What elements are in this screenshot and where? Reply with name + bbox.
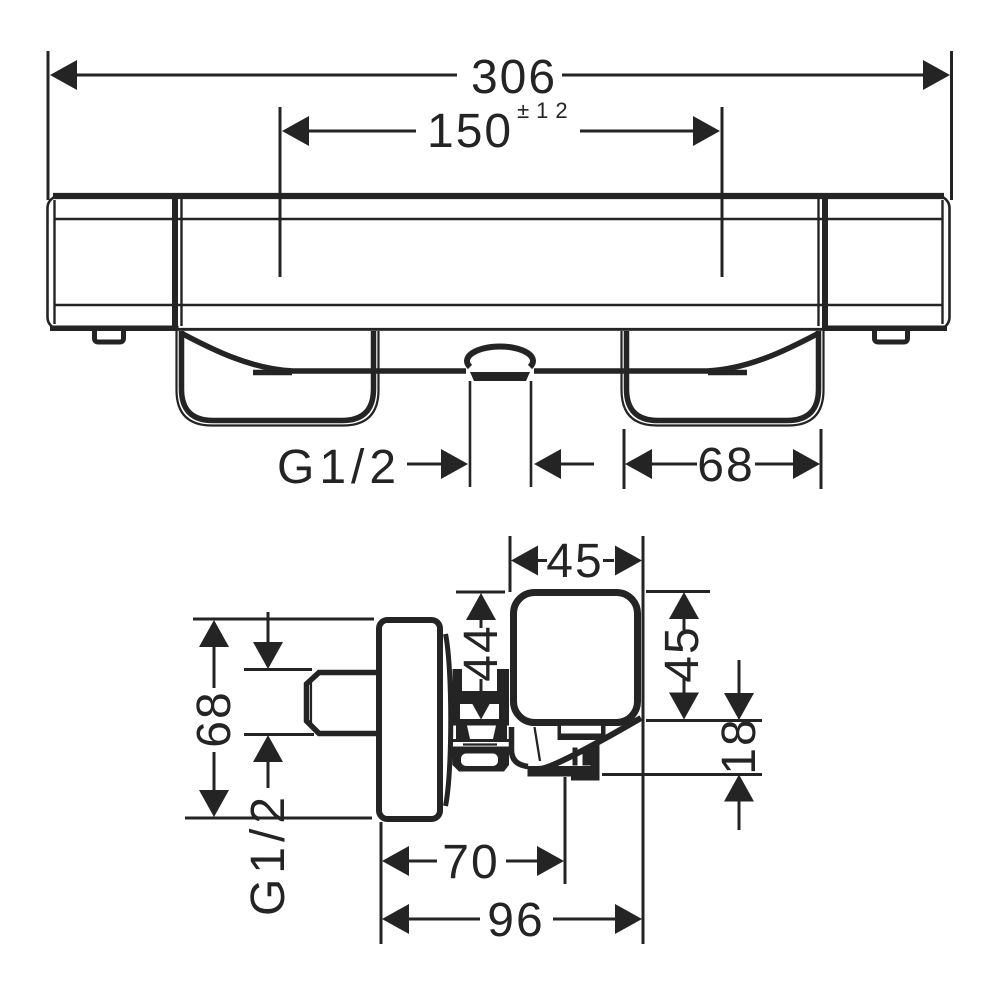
- dimension 68 left line: [213, 647, 216, 791]
- svg-text:G1/2: G1/2: [242, 792, 295, 916]
- dimension 44 arrow down: [466, 693, 496, 720]
- dimension 44 slot walls: [453, 704, 510, 721]
- left escutcheon outer contour thin: [177, 331, 379, 426]
- dimension G1/2 left arrow down: [253, 642, 283, 669]
- dimension 45 top extension line left: [509, 536, 512, 592]
- dimension 150 arrow right: [693, 116, 720, 146]
- svg-text:18: 18: [713, 717, 766, 774]
- dimension 150 extension line right: [721, 107, 724, 277]
- mixer bar outline: [48, 196, 950, 329]
- dimension 68 line: [651, 463, 795, 466]
- handle lever bottom band step: [571, 776, 598, 781]
- handle lever bottom band: [528, 766, 599, 777]
- right mounting clip: [875, 331, 908, 343]
- dimension 68 left arrow up: [199, 620, 229, 647]
- right end cap joint thick: [822, 196, 828, 330]
- dimension 68 extension line right: [820, 429, 823, 489]
- union nut thin line: [463, 743, 497, 745]
- handle lever curve: [539, 718, 641, 769]
- dimension 45 right extension bottom: [646, 719, 762, 722]
- dimension 306 extension line right: [950, 51, 953, 200]
- dimension 45 right extension top: [646, 590, 710, 593]
- escutcheon side view front bulge: [446, 634, 451, 806]
- wall knob G1/2: [307, 673, 377, 734]
- dimension 18 arrow up: [724, 775, 754, 802]
- dimension 150 arrow left: [282, 116, 309, 146]
- right escutcheon: [627, 331, 819, 421]
- dimension 45 top / 96 shared extension line right: [642, 536, 645, 944]
- dimension 150 extension line left: [279, 107, 282, 277]
- dimension 150 line: [308, 130, 694, 133]
- union nut lower band 2: [453, 747, 510, 752]
- left end cap joint thin: [180, 199, 182, 326]
- escutcheon side view body: [379, 620, 440, 819]
- dimension G1/2 extension top: [244, 668, 312, 671]
- dimension 44 extension bottom: [460, 719, 500, 722]
- bottom face curve right overlap bump: [708, 370, 747, 376]
- dimension 306 arrow right: [923, 60, 950, 90]
- dimension 306 line: [76, 74, 924, 77]
- G1/2 arrow line: [407, 463, 444, 466]
- outlet pipe left line: [469, 381, 472, 487]
- dimension 68 arrow right: [793, 449, 820, 479]
- svg-text:68: 68: [697, 439, 754, 492]
- dimension 18 shaft bottom: [738, 800, 741, 830]
- handle lever left wall: [512, 727, 529, 767]
- dimension 70/96 extension line left: [380, 822, 383, 944]
- handle lever right bar: [591, 743, 600, 781]
- dimension 45 top line: [538, 559, 614, 562]
- left end cap inner line: [53, 200, 55, 324]
- dimension 96 arrow left: [382, 904, 409, 934]
- union nut lower band: [453, 739, 510, 742]
- dimension 44 arrow up: [466, 593, 496, 620]
- dimension 68 left arrow down: [199, 790, 229, 817]
- bottom face curve right: [534, 333, 819, 371]
- svg-text:306: 306: [471, 51, 557, 104]
- dimension 68 extension line left: [623, 429, 626, 489]
- union nut bottom piece: [453, 751, 510, 772]
- dimension 96 line: [409, 918, 615, 921]
- dimension 44 extension top: [456, 591, 505, 594]
- svg-text:45: 45: [656, 625, 709, 682]
- dimension 68 left extension top: [193, 618, 374, 621]
- dimension 70 extension line right: [564, 777, 567, 884]
- svg-text:44: 44: [455, 624, 508, 681]
- center gap arrow: [534, 449, 561, 479]
- mixer bar top edge thick: [53, 193, 944, 199]
- outlet notch sill: [558, 734, 606, 741]
- bottom face curve left: [181, 333, 466, 371]
- handle lever inner slant line: [535, 727, 541, 761]
- bottom face curve left overlap bump: [253, 370, 292, 376]
- center gap arrow line: [559, 463, 594, 466]
- dimension 306 extension line left: [47, 51, 50, 200]
- mixer bar lower groove line: [55, 304, 942, 307]
- dimension 68 arrow left: [625, 449, 652, 479]
- dimension 70 line: [409, 860, 537, 863]
- union nut upper walls: [453, 669, 510, 704]
- svg-text:96: 96: [487, 894, 544, 947]
- left mounting clip: [95, 331, 124, 343]
- dimension 45 right arrow up: [669, 592, 699, 619]
- G1/2 arrow: [441, 449, 468, 479]
- union nut taper walls: [456, 726, 507, 740]
- dimension 45 right shaft: [683, 618, 686, 694]
- union nut bottom window: [461, 754, 498, 767]
- dimension 18 extension bottom: [602, 773, 762, 776]
- right end cap inner line: [941, 200, 943, 324]
- outlet collar band: [470, 372, 530, 381]
- union nut band: [453, 721, 510, 726]
- dimension 45 right arrow down: [669, 693, 699, 720]
- right escutcheon outer contour thin: [622, 331, 824, 426]
- dimension 18 shaft top: [738, 660, 741, 696]
- dimension 18 arrow down: [724, 693, 754, 720]
- svg-text:70: 70: [442, 836, 499, 889]
- mixer bar bottom edge thick left cap: [50, 326, 179, 332]
- wall knob face line: [310, 679, 312, 727]
- dimension 96 arrow right: [615, 904, 642, 934]
- svg-text:G1/2: G1/2: [277, 441, 401, 494]
- right end cap joint thin: [817, 199, 819, 326]
- outlet notch white: [561, 726, 601, 734]
- dimension 68 left extension bottom: [185, 817, 372, 820]
- dimension 45 top arrow right: [615, 546, 642, 576]
- dimension G1/2 left shaft bottom: [267, 761, 270, 788]
- handle lever small bars: [573, 748, 592, 766]
- svg-text:68: 68: [188, 690, 241, 747]
- dimension 45 top arrow left: [511, 546, 538, 576]
- dimension G1/2 extension bottom: [244, 733, 314, 736]
- dimension 306 arrow left: [50, 60, 77, 90]
- dimension 70 arrow right: [537, 846, 564, 876]
- left escutcheon: [182, 331, 374, 421]
- dimension 44 shaft: [480, 619, 483, 695]
- outlet collar arc: [467, 346, 533, 367]
- outlet pipe right line: [530, 381, 533, 487]
- mixer bar upper groove line: [55, 218, 942, 221]
- dimension G1/2 left shaft top: [267, 612, 270, 643]
- outlet notch walls: [558, 725, 606, 740]
- dimension 70 arrow left: [382, 846, 409, 876]
- svg-text:45: 45: [546, 535, 603, 588]
- left end cap joint thick: [172, 196, 178, 330]
- mixer bar bottom edge: [53, 328, 944, 331]
- handle body square: [514, 593, 638, 723]
- mixer bar bottom edge thick right cap: [823, 326, 948, 332]
- dimension G1/2 left arrow up: [253, 735, 283, 762]
